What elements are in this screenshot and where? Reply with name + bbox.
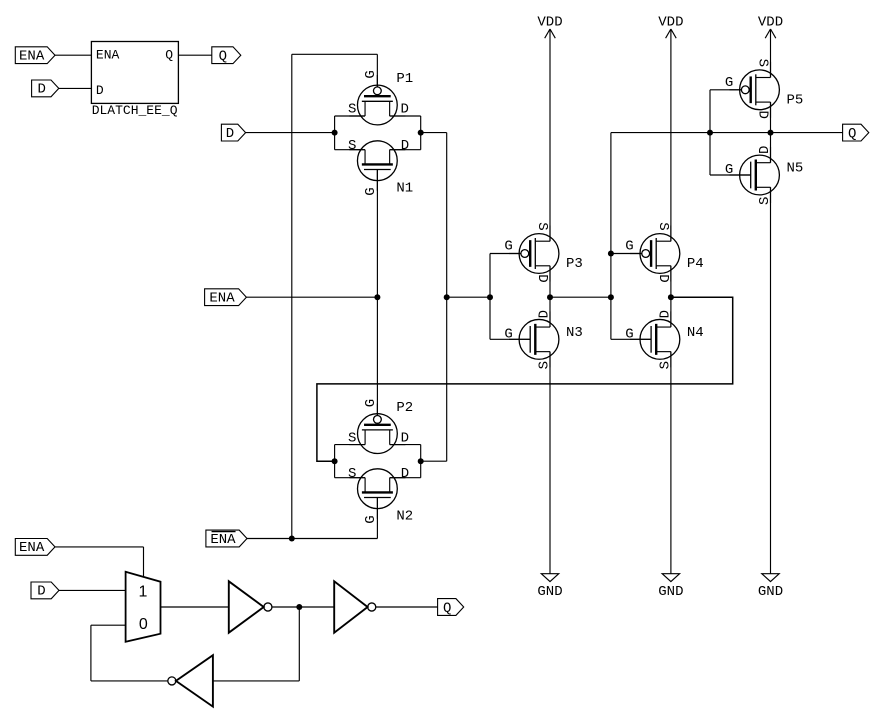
svg-text:D: D: [401, 138, 409, 154]
svg-text:ENA: ENA: [210, 532, 236, 548]
svg-text:G: G: [363, 70, 379, 78]
svg-text:G: G: [504, 239, 512, 255]
svg-text:D: D: [37, 82, 45, 98]
svg-text:Q: Q: [219, 49, 227, 65]
svg-text:D: D: [537, 310, 553, 318]
svg-text:G: G: [363, 515, 379, 523]
svg-text:Q: Q: [848, 126, 856, 142]
svg-text:S: S: [534, 222, 550, 230]
svg-text:VDD: VDD: [758, 15, 783, 31]
svg-text:D: D: [37, 584, 45, 600]
svg-text:G: G: [725, 75, 733, 91]
svg-text:G: G: [363, 187, 379, 195]
svg-text:S: S: [658, 361, 674, 369]
svg-text:G: G: [625, 239, 633, 255]
svg-text:S: S: [655, 222, 671, 230]
svg-text:D: D: [401, 430, 409, 446]
svg-text:DLATCH_EE_Q: DLATCH_EE_Q: [92, 103, 178, 118]
svg-text:N3: N3: [566, 325, 583, 341]
svg-text:VDD: VDD: [537, 15, 562, 31]
svg-text:ENA: ENA: [209, 291, 235, 307]
svg-text:D: D: [658, 310, 674, 318]
svg-text:G: G: [363, 399, 379, 407]
svg-text:0: 0: [139, 616, 148, 633]
svg-text:D: D: [655, 274, 671, 282]
svg-text:Q: Q: [165, 48, 173, 63]
svg-text:N4: N4: [687, 325, 704, 341]
svg-text:D: D: [757, 146, 773, 154]
svg-text:N1: N1: [396, 181, 413, 197]
svg-text:D: D: [755, 110, 771, 118]
svg-text:N5: N5: [787, 161, 804, 177]
svg-text:GND: GND: [758, 584, 783, 600]
svg-text:N2: N2: [396, 509, 413, 525]
svg-text:ENA: ENA: [19, 49, 45, 65]
svg-text:Q: Q: [443, 600, 451, 616]
svg-text:S: S: [348, 466, 356, 482]
svg-text:GND: GND: [658, 584, 683, 600]
svg-text:G: G: [725, 162, 733, 178]
svg-text:1: 1: [138, 583, 147, 600]
svg-text:VDD: VDD: [658, 15, 683, 31]
svg-text:P5: P5: [787, 92, 804, 108]
svg-text:S: S: [757, 197, 773, 205]
svg-text:P3: P3: [566, 256, 583, 272]
svg-text:G: G: [504, 326, 512, 342]
svg-text:G: G: [625, 326, 633, 342]
svg-text:P2: P2: [396, 400, 413, 416]
svg-text:S: S: [348, 138, 356, 154]
svg-text:ENA: ENA: [96, 47, 120, 62]
svg-text:P1: P1: [396, 71, 413, 87]
svg-text:D: D: [96, 83, 104, 98]
svg-text:S: S: [755, 59, 771, 67]
svg-text:D: D: [401, 466, 409, 482]
svg-text:P4: P4: [687, 256, 704, 272]
svg-text:S: S: [348, 102, 356, 118]
svg-text:D: D: [534, 274, 550, 282]
svg-text:D: D: [226, 126, 234, 142]
svg-text:S: S: [537, 361, 553, 369]
svg-text:D: D: [401, 102, 409, 118]
svg-text:S: S: [348, 430, 356, 446]
svg-text:ENA: ENA: [19, 540, 45, 556]
svg-text:GND: GND: [537, 584, 562, 600]
